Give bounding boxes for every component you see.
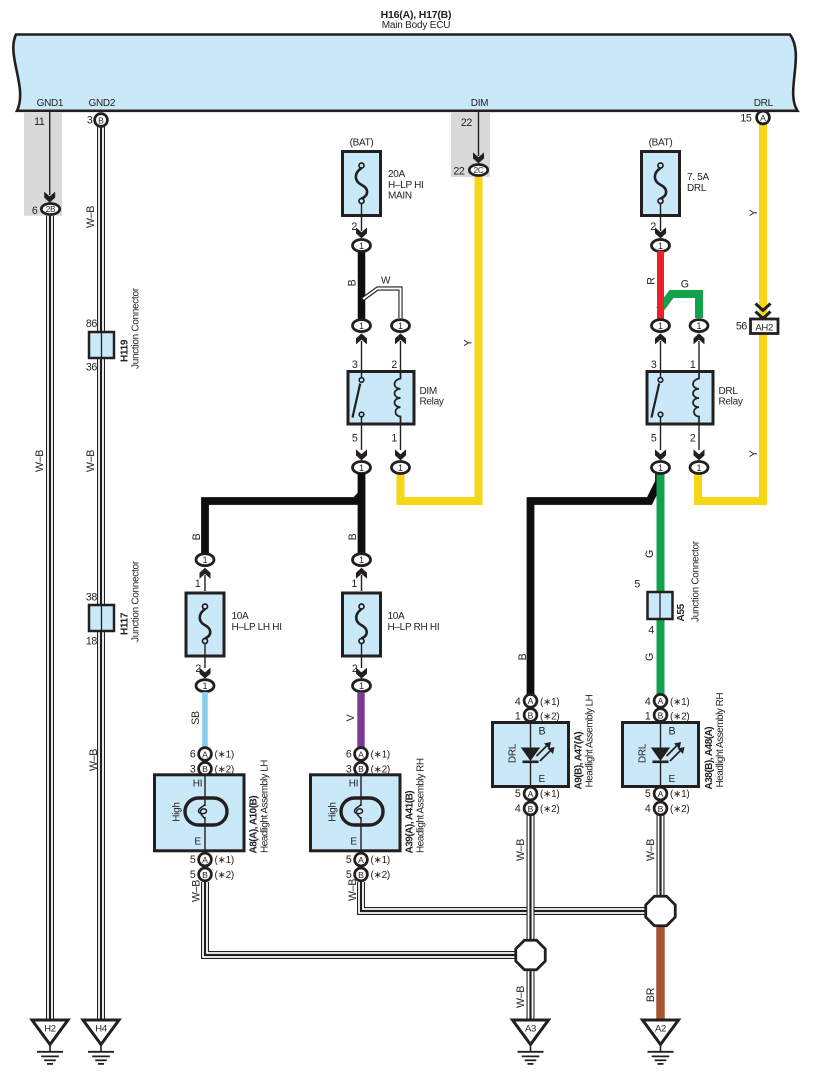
- svg-text:W–B: W–B: [85, 450, 97, 472]
- svg-text:(∗1): (∗1): [540, 697, 559, 708]
- fuse 10A H-LP LH HI: [186, 593, 282, 679]
- svg-text:H117: H117: [120, 612, 131, 635]
- svg-text:H–LP RH HI: H–LP RH HI: [388, 622, 440, 633]
- wire W-B headlight LH to junction: [191, 880, 531, 955]
- svg-text:Relay: Relay: [719, 397, 743, 408]
- connector oval 1 below fuse RH: [353, 680, 371, 692]
- DRL pin 15 connector A: [740, 111, 769, 124]
- svg-text:1: 1: [658, 463, 663, 473]
- connector oval 1 below fuse 7.5A: [652, 240, 670, 252]
- svg-text:1: 1: [391, 433, 397, 445]
- svg-text:A: A: [528, 696, 534, 706]
- connector oval 1 below DRL relay pin 2: [690, 462, 708, 474]
- svg-text:A38(B), A48(A): A38(B), A48(A): [704, 727, 715, 790]
- svg-text:1: 1: [359, 681, 364, 691]
- svg-text:(∗2): (∗2): [371, 870, 390, 881]
- svg-text:Main Body ECU: Main Body ECU: [382, 20, 451, 31]
- svg-text:Headlight Assembly RH: Headlight Assembly RH: [715, 693, 726, 788]
- svg-text:DRL: DRL: [638, 743, 649, 763]
- wire Y DIM from 2C to DIM relay coil: [401, 176, 479, 501]
- relay coil: [395, 373, 401, 423]
- wire BR junction to ground A2: [645, 918, 661, 1020]
- svg-text:1: 1: [195, 578, 201, 590]
- svg-text:Junction Connector: Junction Connector: [131, 560, 142, 642]
- svg-text:A39(A), A41(B): A39(A), A41(B): [405, 791, 416, 854]
- wire W-B GND1 to ground H2: [34, 214, 50, 1020]
- wire Y DRL from pin 15 to DRL relay coil: [698, 124, 763, 501]
- svg-text:B: B: [528, 804, 534, 814]
- headlight assembly RH high beam A39(A),A41(B): [311, 748, 427, 881]
- assembly box: [155, 775, 245, 851]
- connector oval 1 above fuse RH HI: [351, 554, 370, 591]
- svg-text:18: 18: [86, 636, 98, 648]
- svg-text:B: B: [528, 710, 534, 720]
- svg-text:2B: 2B: [46, 205, 56, 214]
- connector circle A: [757, 111, 770, 124]
- ground H4: [83, 1020, 119, 1064]
- svg-text:B: B: [202, 764, 208, 774]
- svg-text:4: 4: [648, 625, 654, 637]
- svg-text:(∗2): (∗2): [540, 804, 559, 815]
- ground H2: [32, 1020, 68, 1064]
- svg-text:3: 3: [87, 115, 93, 127]
- wire R fuse DRL to relay: [646, 251, 661, 320]
- svg-text:Headlight Assembly LH: Headlight Assembly LH: [585, 694, 596, 787]
- wire W-B GND2 to ground H4: [85, 126, 101, 1020]
- svg-text:DRL: DRL: [508, 743, 519, 763]
- svg-text:4: 4: [515, 803, 521, 815]
- svg-text:B: B: [358, 764, 364, 774]
- svg-text:2C: 2C: [474, 166, 484, 175]
- wire W-B DRL LH down to junction: [515, 815, 531, 948]
- svg-text:Headlight Assembly RH: Headlight Assembly RH: [416, 758, 427, 853]
- DIM relay pin 1 lead: [391, 424, 406, 460]
- wire W-B DRL RH down to junction: [645, 815, 661, 904]
- svg-text:1: 1: [202, 555, 207, 565]
- wire pin 22: [478, 112, 480, 156]
- svg-text:W: W: [381, 276, 391, 287]
- svg-text:5: 5: [651, 433, 657, 445]
- svg-text:DRL: DRL: [719, 386, 739, 397]
- svg-text:High: High: [328, 802, 339, 821]
- connector oval 1 below DRL relay pin 5: [652, 462, 670, 474]
- svg-text:DRL: DRL: [754, 98, 774, 109]
- svg-text:B: B: [669, 726, 676, 738]
- arrow into 2B: [44, 192, 55, 203]
- svg-text:56: 56: [736, 321, 748, 333]
- svg-text:7. 5A: 7. 5A: [687, 172, 709, 183]
- svg-text:E: E: [350, 836, 357, 847]
- splice junction octagon 2: [646, 896, 676, 926]
- svg-text:GND2: GND2: [89, 98, 116, 109]
- wire G DRL relay to A55 and RH assembly: [644, 473, 661, 694]
- wire into LED: [530, 724, 532, 748]
- svg-text:W–B: W–B: [34, 450, 46, 472]
- svg-text:1: 1: [202, 681, 207, 691]
- wire into LED: [660, 724, 662, 748]
- DRL branch components: [517, 137, 778, 694]
- svg-text:A: A: [658, 789, 664, 799]
- svg-text:V: V: [345, 713, 357, 721]
- connector oval 1 below fuse LH: [196, 680, 214, 692]
- svg-text:22: 22: [453, 166, 465, 178]
- svg-text:(∗1): (∗1): [215, 750, 234, 761]
- svg-text:(∗1): (∗1): [371, 855, 390, 866]
- svg-text:(BAT): (BAT): [350, 137, 374, 148]
- svg-text:B: B: [517, 653, 529, 660]
- shield gray box GND1: [24, 112, 62, 216]
- wire B fuse 20A to DIM relay: [347, 240, 371, 321]
- svg-text:2: 2: [391, 359, 397, 371]
- connector circle B: [95, 114, 108, 127]
- wire pin 11: [49, 112, 51, 195]
- svg-text:1: 1: [359, 241, 364, 251]
- svg-text:1: 1: [658, 321, 663, 331]
- ground A3: [513, 1020, 549, 1064]
- svg-text:1: 1: [645, 711, 651, 723]
- svg-text:H16(A), H17(B): H16(A), H17(B): [381, 9, 452, 21]
- svg-text:High: High: [172, 802, 183, 821]
- fuse 7.5A DRL: [642, 137, 710, 238]
- svg-text:A: A: [658, 696, 664, 706]
- wire B DRL relay to DRL LH assembly: [517, 474, 659, 694]
- svg-text:1: 1: [690, 359, 696, 371]
- svg-text:1: 1: [696, 321, 701, 331]
- svg-text:H119: H119: [120, 339, 131, 362]
- fuse 10A H-LP RH HI: [343, 593, 440, 679]
- headlight assembly LH high beam A8(A),A10(B): [155, 748, 271, 881]
- connector oval 1 below DIM relay pin 1: [392, 462, 410, 474]
- svg-text:5: 5: [346, 854, 352, 866]
- svg-text:15: 15: [740, 112, 752, 124]
- svg-text:H2: H2: [44, 1024, 56, 1035]
- svg-text:20A: 20A: [388, 169, 406, 180]
- svg-text:W–B: W–B: [85, 206, 97, 228]
- relay contact: [660, 373, 662, 378]
- svg-text:5: 5: [346, 869, 352, 881]
- Main Body ECU H16(A),H17(B) band: [13, 9, 797, 111]
- relay coil: [693, 373, 699, 423]
- relay contact: [361, 373, 363, 378]
- svg-text:5: 5: [634, 579, 640, 591]
- svg-text:HI: HI: [193, 779, 202, 790]
- GND2 pin 3 connector B: [87, 114, 107, 127]
- svg-text:W–B: W–B: [645, 839, 657, 861]
- wire B DIM relay output distribution: [191, 473, 362, 560]
- svg-text:A8(A), A10(B): A8(A), A10(B): [249, 796, 260, 854]
- svg-text:B: B: [539, 726, 546, 738]
- assembly box: [623, 723, 699, 787]
- wire W-B headlight RH to junction: [347, 879, 661, 911]
- svg-text:H4: H4: [95, 1024, 107, 1035]
- svg-text:A: A: [202, 855, 208, 865]
- splice junction octagon 1: [516, 940, 546, 970]
- svg-text:GND1: GND1: [37, 98, 64, 109]
- svg-text:10A: 10A: [388, 611, 406, 622]
- headlight assembly RH DRL A38(B),A48(A): [623, 693, 727, 815]
- svg-text:A2: A2: [655, 1024, 666, 1035]
- svg-text:4: 4: [515, 696, 521, 708]
- svg-text:B: B: [202, 870, 208, 880]
- svg-text:W–B: W–B: [347, 879, 359, 901]
- svg-text:5: 5: [190, 854, 196, 866]
- svg-text:A: A: [528, 789, 534, 799]
- svg-text:1: 1: [398, 463, 403, 473]
- svg-text:(∗1): (∗1): [371, 750, 390, 761]
- svg-text:Y: Y: [748, 450, 760, 457]
- svg-text:B: B: [658, 710, 664, 720]
- svg-text:86: 86: [86, 318, 98, 330]
- svg-text:DIM: DIM: [420, 386, 437, 397]
- arrow into 2C: [473, 152, 484, 163]
- svg-text:R: R: [646, 277, 658, 285]
- wire G branch to DRL relay coil: [660, 279, 700, 318]
- svg-text:4: 4: [645, 803, 651, 815]
- svg-text:Y: Y: [748, 209, 760, 216]
- svg-text:G: G: [681, 279, 689, 291]
- wire into bulb: [204, 776, 206, 806]
- wire W branch to DIM relay contact: [363, 276, 401, 319]
- svg-text:6: 6: [346, 749, 352, 761]
- svg-text:1: 1: [515, 711, 521, 723]
- svg-text:5: 5: [515, 788, 521, 800]
- headlight assembly LH DRL A9(B),A47(A): [493, 694, 596, 815]
- svg-text:B: B: [347, 279, 359, 286]
- svg-text:SB: SB: [190, 711, 202, 725]
- svg-text:AH2: AH2: [755, 322, 773, 333]
- connector oval 1 above DIM relay pin 2: [391, 320, 409, 371]
- svg-text:Junction Connector: Junction Connector: [691, 540, 702, 622]
- bulb High: [341, 798, 383, 825]
- svg-text:B: B: [191, 533, 203, 540]
- assembly box: [311, 775, 401, 851]
- wire SB to headlight LH: [190, 692, 205, 747]
- svg-text:G: G: [644, 653, 656, 661]
- svg-text:DIM: DIM: [471, 98, 488, 109]
- svg-text:5: 5: [645, 788, 651, 800]
- DRL relay U: [647, 372, 743, 425]
- svg-text:MAIN: MAIN: [388, 190, 412, 201]
- svg-text:5: 5: [190, 869, 196, 881]
- svg-text:1: 1: [658, 241, 663, 251]
- svg-text:B: B: [347, 533, 359, 540]
- svg-text:(∗1): (∗1): [670, 697, 689, 708]
- svg-text:A9(B), A47(A): A9(B), A47(A): [574, 732, 585, 790]
- svg-text:3: 3: [651, 359, 657, 371]
- svg-text:(∗1): (∗1): [540, 789, 559, 800]
- svg-text:G: G: [644, 550, 656, 558]
- DIM relay U: [348, 372, 444, 425]
- svg-text:1: 1: [359, 463, 364, 473]
- fuse 20A pin 2: [361, 203, 363, 231]
- svg-text:H–LP HI: H–LP HI: [388, 180, 424, 191]
- svg-text:1: 1: [359, 321, 364, 331]
- svg-text:1: 1: [359, 555, 364, 565]
- svg-text:(BAT): (BAT): [649, 137, 673, 148]
- DRL relay pin 5 lead: [651, 424, 666, 460]
- DIM relay pin 5 lead: [352, 424, 367, 460]
- connector oval 2B: [41, 204, 59, 215]
- svg-text:(∗1): (∗1): [670, 789, 689, 800]
- svg-text:22: 22: [461, 117, 473, 129]
- svg-text:DRL: DRL: [687, 183, 707, 194]
- connector oval 1 below DIM relay pin 5: [353, 462, 371, 474]
- DRL relay pin 2 lead: [690, 424, 705, 460]
- DIM pin 22 shielded drop: [451, 112, 490, 178]
- shield gray box DIM: [451, 112, 490, 177]
- ground A2: [643, 1020, 679, 1064]
- LED DRL: [521, 748, 540, 762]
- svg-text:1: 1: [696, 463, 701, 473]
- svg-text:A: A: [202, 749, 208, 759]
- svg-text:Relay: Relay: [420, 397, 444, 408]
- svg-text:E: E: [194, 836, 201, 847]
- wire W-B junction to ground A3: [515, 962, 531, 1020]
- svg-text:A3: A3: [525, 1024, 536, 1035]
- svg-text:(∗2): (∗2): [670, 804, 689, 815]
- svg-text:6: 6: [32, 205, 38, 217]
- connector oval 1 below fuse 20A: [353, 240, 371, 252]
- svg-text:2: 2: [690, 433, 696, 445]
- LED DRL: [651, 748, 670, 762]
- connector oval 1 above DIM relay pin 3: [352, 320, 371, 371]
- svg-text:B: B: [358, 870, 364, 880]
- svg-text:B: B: [98, 115, 104, 125]
- svg-text:B: B: [658, 804, 664, 814]
- junction connector H117: [86, 560, 142, 647]
- wire V to headlight RH: [345, 692, 361, 747]
- wire into bulb: [360, 776, 362, 806]
- svg-text:4: 4: [645, 696, 651, 708]
- bulb High: [185, 798, 227, 825]
- svg-text:Junction Connector: Junction Connector: [131, 287, 142, 369]
- svg-text:HI: HI: [349, 779, 358, 790]
- svg-text:E: E: [669, 774, 676, 785]
- svg-text:1: 1: [351, 578, 357, 590]
- svg-text:H–LP LH HI: H–LP LH HI: [232, 622, 282, 633]
- svg-text:A: A: [358, 749, 364, 759]
- svg-text:38: 38: [86, 592, 98, 604]
- svg-text:W–B: W–B: [88, 749, 100, 771]
- svg-text:(∗2): (∗2): [215, 870, 234, 881]
- svg-text:11: 11: [34, 116, 45, 128]
- connector oval 1 above DRL relay pin 3: [651, 320, 670, 371]
- svg-text:A: A: [358, 855, 364, 865]
- harness connector AH2: [736, 304, 778, 334]
- svg-text:A55: A55: [676, 603, 687, 621]
- junction connector A55: [634, 540, 701, 636]
- GND1 pin 11 shielded drop: [24, 112, 62, 217]
- svg-text:10A: 10A: [232, 611, 250, 622]
- svg-text:(∗1): (∗1): [215, 855, 234, 866]
- svg-text:6: 6: [190, 749, 196, 761]
- svg-text:E: E: [539, 774, 546, 785]
- svg-text:W–B: W–B: [515, 839, 527, 861]
- svg-text:W–B: W–B: [191, 880, 203, 902]
- assembly box: [493, 723, 569, 787]
- svg-text:3: 3: [352, 359, 358, 371]
- svg-text:1: 1: [398, 321, 403, 331]
- connector oval 1 above fuse LH HI: [195, 554, 214, 591]
- svg-text:W–B: W–B: [515, 986, 527, 1008]
- connector oval 1 above DRL relay pin 1: [690, 320, 708, 371]
- svg-text:36: 36: [86, 362, 98, 374]
- svg-text:A: A: [760, 113, 766, 123]
- connector oval 2C: [469, 165, 487, 176]
- svg-text:Headlight Assembly LH: Headlight Assembly LH: [260, 760, 271, 853]
- junction connector H119: [86, 287, 142, 373]
- fuse 20A H-LP HI MAIN: [343, 137, 424, 238]
- svg-text:5: 5: [352, 433, 358, 445]
- svg-text:Y: Y: [463, 339, 475, 346]
- svg-text:BR: BR: [645, 987, 657, 1002]
